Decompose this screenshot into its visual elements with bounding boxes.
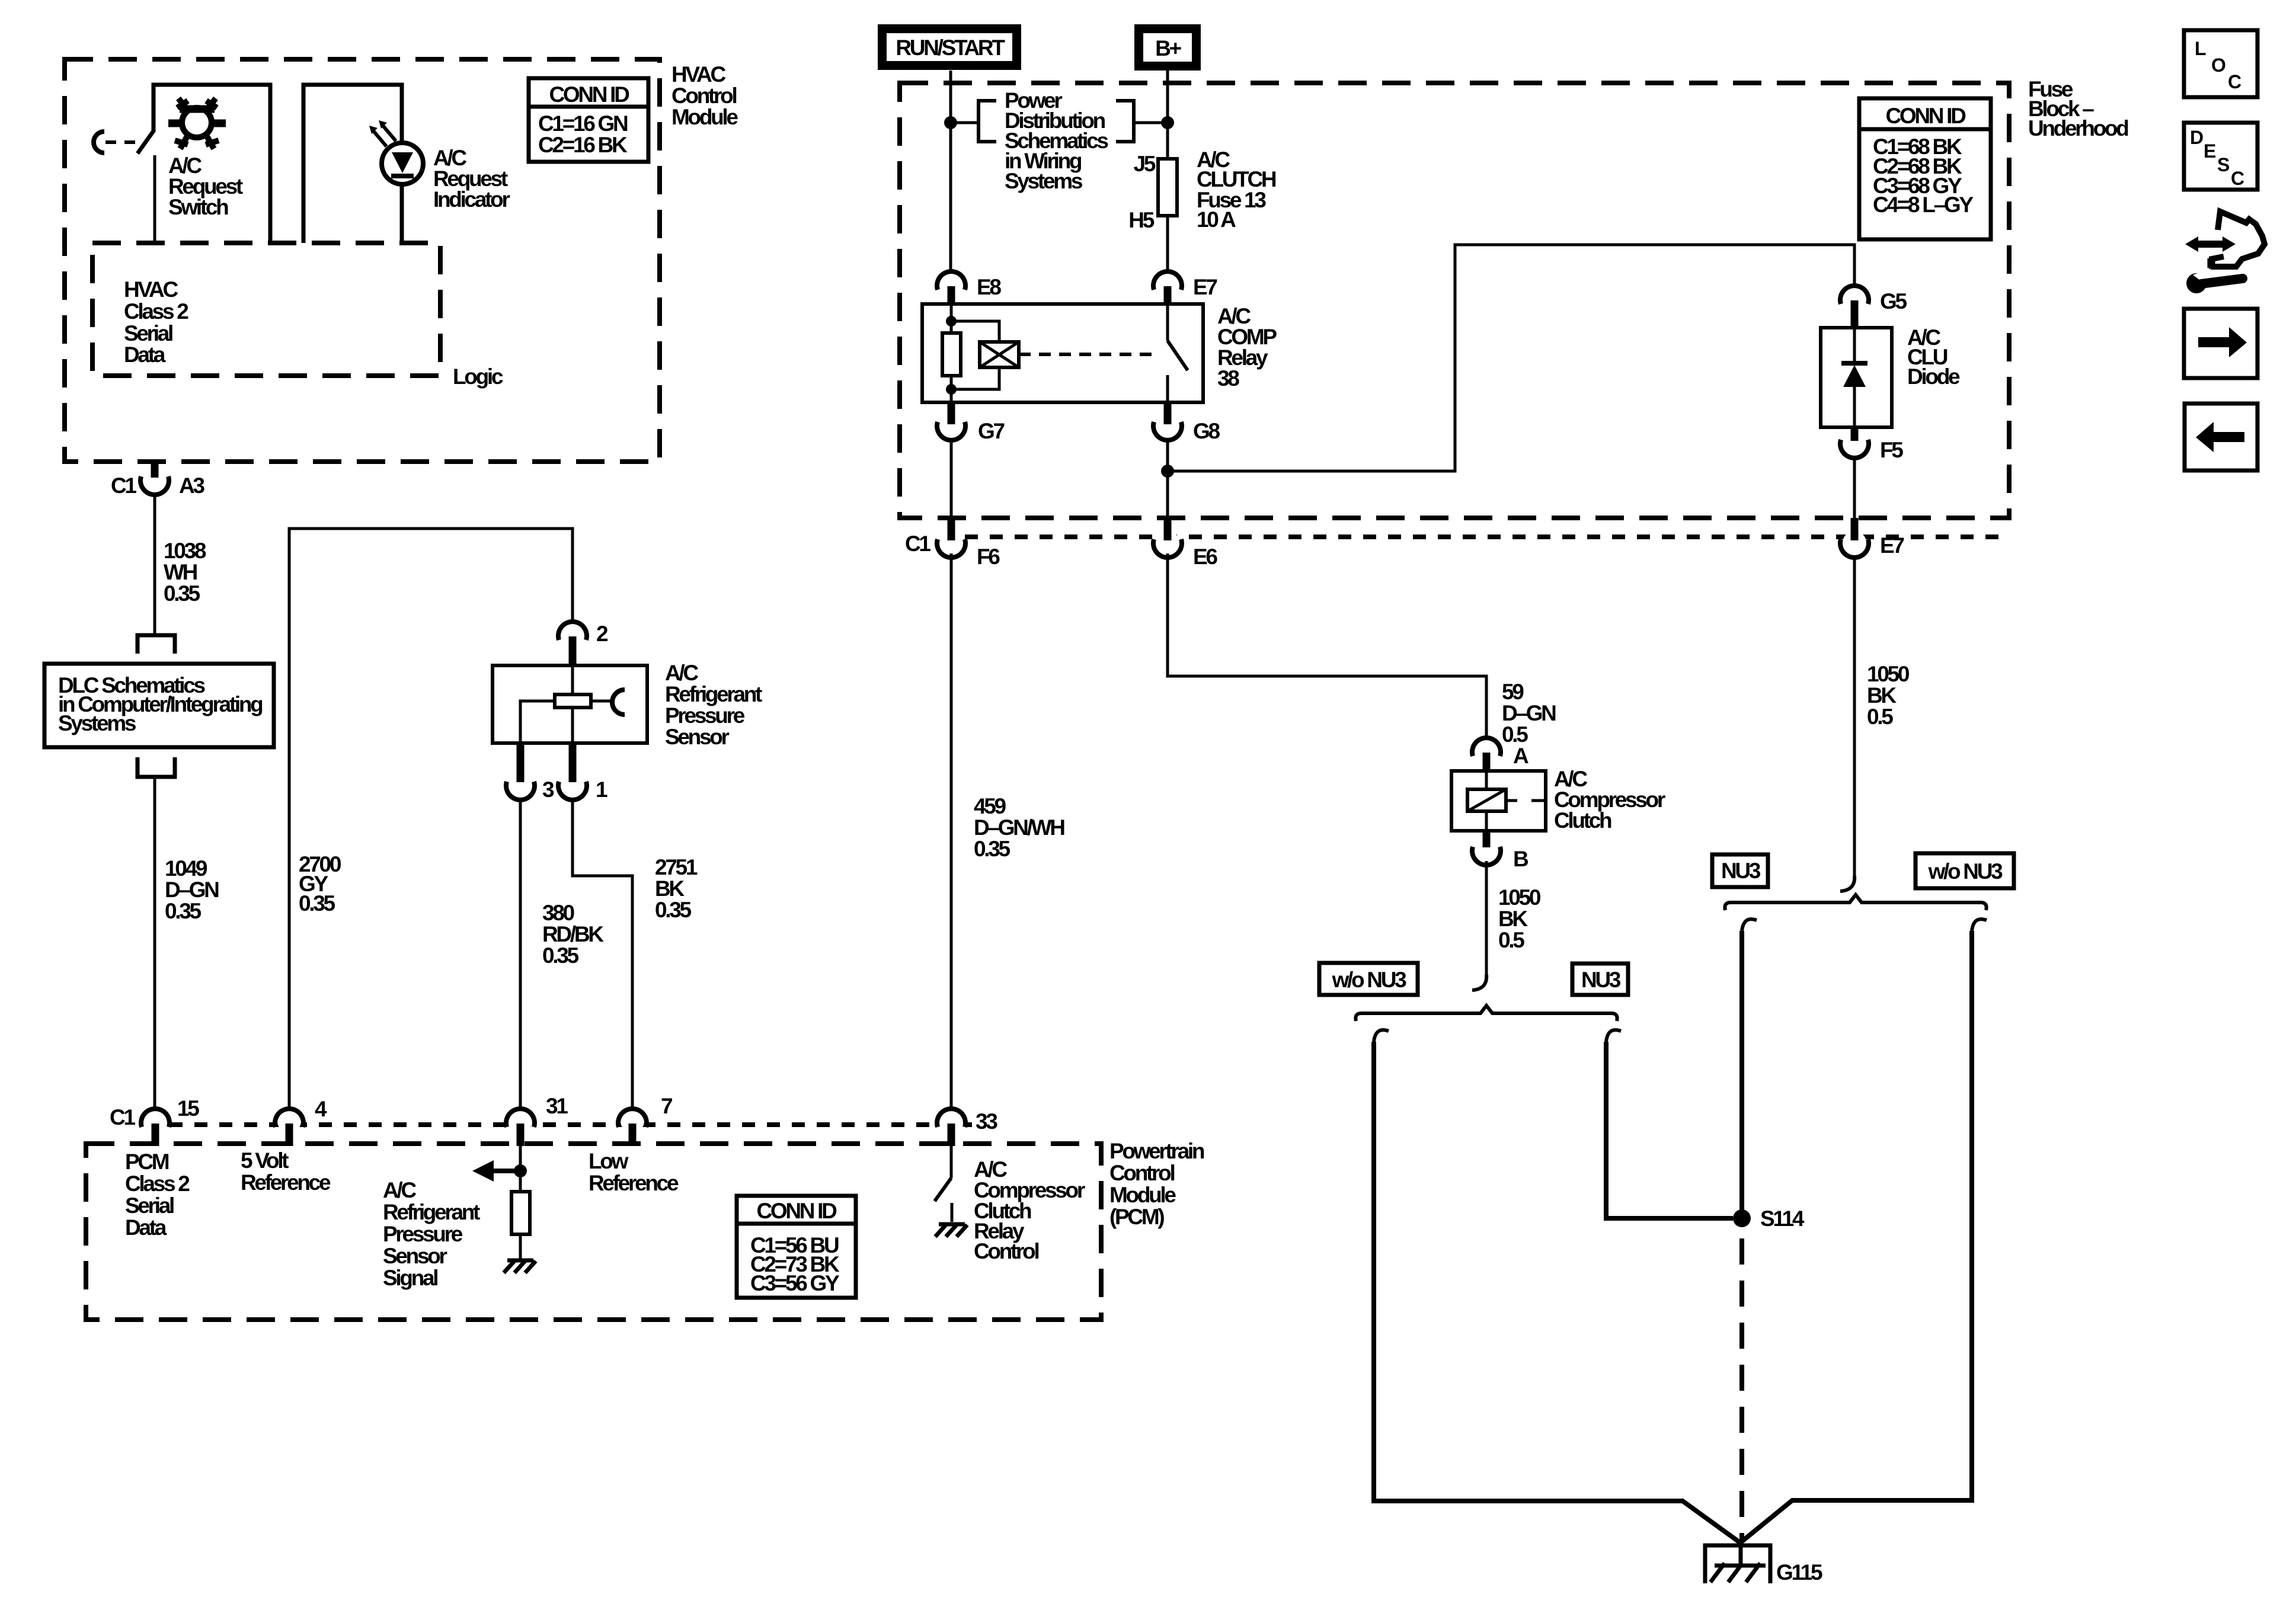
svg-text:0.35: 0.35: [299, 891, 335, 916]
connector pin 4: [277, 1109, 301, 1133]
svg-text:C1: C1: [905, 532, 930, 556]
switch actuator dashed wire: [105, 140, 136, 144]
dotted connector row C1 (PCM): [170, 1122, 972, 1127]
svg-text:1038: 1038: [164, 539, 206, 563]
svg-text:380: 380: [542, 901, 575, 925]
diode symbol: [1853, 328, 1856, 427]
splice S114: [1733, 1209, 1751, 1227]
svg-text:Class 2: Class 2: [125, 1172, 190, 1196]
svg-text:Powertrain: Powertrain: [1109, 1139, 1204, 1163]
svg-text:G115: G115: [1776, 1560, 1822, 1585]
connector pin 2 (sensor): [558, 622, 587, 640]
power feed box RUN/START: [878, 24, 1021, 70]
module box: Powertrain Control Module (PCM): [86, 1144, 1101, 1320]
svg-text:A/C: A/C: [665, 661, 698, 685]
wire to power distribution bracket: [951, 121, 1168, 124]
svg-text:w/o NU3: w/o NU3: [1928, 859, 2003, 884]
bracket into DLC: [137, 635, 175, 654]
svg-text:RUN/START: RUN/START: [896, 36, 1005, 60]
svg-text:E: E: [2204, 140, 2216, 162]
svg-text:0.5: 0.5: [1498, 928, 1524, 952]
svg-text:0.35: 0.35: [974, 837, 1011, 861]
power feed box B+: [1134, 24, 1201, 71]
module box: HVAC Control Module: [65, 59, 660, 462]
svg-text:Switch: Switch: [168, 195, 228, 219]
fuse A/C CLUTCH Fuse 13: [1158, 159, 1177, 216]
svg-text:1: 1: [596, 777, 607, 802]
bracket below DLC: [137, 757, 175, 777]
svg-text:S: S: [2217, 154, 2230, 175]
svg-text:E7: E7: [1193, 275, 1217, 299]
junction dot: [946, 316, 957, 327]
connector G5: [1840, 286, 1869, 304]
svg-text:D: D: [2190, 127, 2203, 148]
relay switch: [1166, 305, 1169, 402]
svg-text:Module: Module: [671, 105, 738, 129]
svg-text:A3: A3: [179, 473, 204, 498]
svg-text:C2=16 BK: C2=16 BK: [538, 133, 628, 157]
option box: w/o NU3 (left): [1319, 963, 1418, 995]
snowflake icon: [168, 98, 226, 149]
svg-text:0.35: 0.35: [165, 899, 202, 923]
svg-text:CONN ID: CONN ID: [1885, 104, 1966, 128]
hook right branch: [1606, 1030, 1621, 1042]
svg-text:0.5: 0.5: [1867, 705, 1893, 729]
relay coil (X box): [980, 342, 1019, 367]
wire end hook (E7 wire): [1840, 876, 1854, 891]
svg-text:C: C: [2231, 168, 2244, 189]
svg-text:Underhood: Underhood: [2028, 116, 2128, 140]
svg-text:WH: WH: [164, 560, 197, 584]
svg-text:HVAC: HVAC: [124, 277, 178, 302]
pin 33 internal switch: [950, 1146, 953, 1178]
clutch coil symbol: [1486, 771, 1546, 831]
svg-text:Module: Module: [1109, 1183, 1176, 1207]
svg-text:Diode: Diode: [1907, 364, 1960, 389]
connector B: [1483, 831, 1491, 847]
svg-text:2: 2: [596, 622, 608, 646]
svg-text:B: B: [1513, 847, 1528, 871]
svg-text:D–GN: D–GN: [1502, 701, 1556, 725]
option box: w/o NU3 (right): [1916, 853, 2014, 888]
svg-text:2751: 2751: [655, 855, 698, 879]
svg-text:NU3: NU3: [1581, 968, 1621, 992]
ground G115: [1705, 1545, 1770, 1583]
svg-text:C: C: [2228, 71, 2241, 92]
svg-text:1050: 1050: [1498, 885, 1541, 910]
svg-text:Low: Low: [589, 1149, 629, 1173]
svg-text:w/o NU3: w/o NU3: [1332, 968, 1407, 992]
svg-text:H5: H5: [1128, 208, 1154, 232]
svg-text:F6: F6: [977, 545, 1000, 569]
relay coil wires: [951, 305, 999, 402]
svg-text:C3=56 GY: C3=56 GY: [750, 1271, 840, 1295]
svg-text:Serial: Serial: [124, 321, 172, 345]
hook right branch (w/o NU3): [1972, 919, 1987, 931]
junction dot: [1161, 465, 1174, 478]
pin 31 internal wire: [519, 1146, 522, 1259]
internal ground (pin 31): [507, 1259, 533, 1263]
svg-text:Class 2: Class 2: [124, 299, 188, 324]
svg-text:C1=16 GN: C1=16 GN: [538, 111, 628, 136]
svg-text:31: 31: [546, 1094, 568, 1118]
svg-text:459: 459: [974, 794, 1006, 818]
logic box (HVAC Class 2 Serial Data): [92, 243, 440, 376]
svg-text:HVAC: HVAC: [671, 62, 725, 87]
brace (right option split): [1725, 895, 1986, 910]
wire 380 (pin3 to PCM 31): [519, 801, 522, 1108]
wire 459 (F6 to PCM 33): [950, 553, 953, 1108]
svg-text:Data: Data: [124, 343, 166, 367]
option box: NU3 (middle): [1572, 964, 1628, 995]
connector pin 31: [509, 1109, 532, 1133]
svg-text:PCM: PCM: [125, 1150, 169, 1174]
bracket left (power distribution): [978, 101, 996, 142]
svg-text:NU3: NU3: [1721, 859, 1761, 883]
junction dot: [944, 116, 957, 129]
wire 59 (E6 to compressor clutch): [1168, 553, 1486, 737]
internal ground (pin 33): [939, 1222, 965, 1227]
svg-text:Logic: Logic: [453, 364, 503, 389]
connector pin 15: [143, 1109, 167, 1133]
connector G8: [1164, 402, 1172, 424]
svg-text:Reference: Reference: [589, 1171, 679, 1195]
connector A (compressor clutch): [1472, 738, 1501, 756]
hook left branch: [1374, 1030, 1389, 1042]
svg-text:Indicator: Indicator: [433, 187, 510, 212]
svg-text:G5: G5: [1880, 289, 1907, 313]
junction dot: [946, 384, 957, 395]
signal arrow: [493, 1169, 520, 1173]
wire below switch: [154, 155, 156, 243]
dotted connector row C1 (fuse block): [965, 534, 2009, 539]
svg-text:CONN ID: CONN ID: [756, 1199, 837, 1223]
svg-text:Clutch: Clutch: [1554, 808, 1611, 833]
internal resistor: [511, 1192, 530, 1234]
wire end hook: [1472, 975, 1486, 990]
relay resistor: [942, 333, 961, 376]
icon: right arrow box: [2184, 309, 2257, 378]
wire F5 to E7: [1853, 459, 1856, 519]
svg-text:Refrigerant: Refrigerant: [383, 1200, 480, 1224]
svg-text:BK: BK: [655, 876, 685, 901]
box: A/C CLU Diode: [1821, 328, 1892, 427]
svg-text:7: 7: [661, 1094, 672, 1118]
hook left branch (NU3): [1742, 919, 1757, 931]
svg-text:D–GN/WH: D–GN/WH: [974, 815, 1064, 840]
svg-text:15: 15: [177, 1096, 199, 1121]
icon: vehicle data (outline, arrow, wrench): [2197, 241, 2224, 248]
wire 1038: [154, 495, 156, 635]
box: A/C Request Indicator: [303, 85, 402, 243]
svg-text:0.35: 0.35: [164, 581, 200, 606]
svg-text:33: 33: [976, 1109, 997, 1134]
svg-text:O: O: [2211, 55, 2225, 76]
svg-text:Pressure: Pressure: [665, 703, 745, 728]
wire 2700 (sensor pin2 to PCM pin4): [289, 529, 573, 1108]
svg-text:Data: Data: [125, 1215, 167, 1240]
svg-text:Signal: Signal: [383, 1266, 437, 1290]
module box: Fuse Block Underhood: [900, 83, 2009, 518]
pressure port symbol: [612, 690, 625, 715]
svg-text:Sensor: Sensor: [383, 1244, 447, 1268]
svg-text:A/C: A/C: [383, 1178, 416, 1202]
svg-text:0.35: 0.35: [542, 943, 579, 968]
svg-text:E8: E8: [977, 275, 1001, 299]
svg-text:S114: S114: [1760, 1206, 1805, 1231]
svg-text:3: 3: [542, 777, 554, 802]
box: A/C Compressor Clutch: [1451, 771, 1546, 831]
icon: left arrow box: [2185, 404, 2257, 470]
svg-text:5 Volt: 5 Volt: [241, 1148, 289, 1173]
switch blade (A/C request switch): [137, 131, 154, 153]
svg-text:1050: 1050: [1867, 662, 1910, 686]
bracket right (power distribution): [1116, 101, 1134, 142]
connector pin 33: [939, 1109, 963, 1133]
svg-text:Control: Control: [1109, 1161, 1174, 1185]
sensor internals: [520, 665, 613, 743]
relay actuator dashed line: [1019, 353, 1157, 356]
brace (left option split): [1355, 1006, 1617, 1021]
wire relay to diode (via top): [1168, 245, 1854, 471]
svg-text:59: 59: [1502, 680, 1524, 704]
box: CONN ID (PCM): [737, 1196, 856, 1298]
wire NU3 branch down to S114: [1739, 931, 1744, 1209]
connector E6: [1156, 531, 1179, 555]
svg-text:C1: C1: [110, 1105, 135, 1129]
svg-text:10 A: 10 A: [1197, 207, 1236, 232]
connector E7 (relay): [1153, 271, 1182, 290]
box: DLC Schematics: [44, 664, 274, 747]
wire 1049: [154, 777, 156, 1108]
svg-text:J5: J5: [1133, 152, 1155, 176]
svg-text:Serial: Serial: [125, 1193, 174, 1218]
svg-text:C4=8 L–GY: C4=8 L–GY: [1873, 193, 1974, 217]
box: A/C Refrigerant Pressure Sensor: [493, 665, 647, 743]
option box: NU3 (right): [1712, 854, 1768, 887]
svg-text:(PCM): (PCM): [1109, 1205, 1164, 1229]
svg-text:Refrigerant: Refrigerant: [665, 682, 762, 706]
svg-text:Control: Control: [671, 84, 736, 108]
connector pin 7: [621, 1109, 644, 1133]
wire G8 to E6: [1166, 441, 1169, 519]
svg-text:D–GN: D–GN: [165, 878, 219, 902]
svg-text:CONN ID: CONN ID: [549, 82, 629, 107]
connector F6: [939, 531, 963, 555]
svg-text:B+: B+: [1155, 36, 1181, 60]
LED arrows: [373, 126, 396, 146]
wire B+ down: [1166, 71, 1169, 271]
wire left branch (w/o NU3) to ground: [1374, 1042, 1741, 1543]
wire 2751 (pin1 to PCM 7): [573, 801, 632, 1108]
svg-text:Systems: Systems: [58, 711, 136, 735]
resistor (sensor element): [555, 694, 591, 708]
svg-text:E7: E7: [1880, 533, 1904, 558]
connector G7: [948, 402, 955, 424]
svg-text:Reference: Reference: [241, 1170, 331, 1195]
svg-text:G8: G8: [1193, 419, 1220, 443]
svg-text:38: 38: [1217, 366, 1239, 391]
svg-text:Pressure: Pressure: [383, 1222, 463, 1246]
wire w/o NU3 branch down to ground: [1741, 931, 1972, 1542]
dashed wire S114 to ground: [1739, 1238, 1744, 1542]
connector E8: [937, 271, 965, 290]
wire 1050 (B down to brace): [1485, 861, 1488, 975]
svg-text:RD/BK: RD/BK: [542, 922, 604, 946]
svg-text:1049: 1049: [165, 856, 207, 881]
connector E7 (harness): [1843, 531, 1866, 555]
connector C1 A3: [151, 462, 159, 478]
svg-text:E6: E6: [1193, 545, 1217, 569]
svg-text:A: A: [1513, 744, 1528, 768]
icon: LOC box: [2184, 30, 2257, 97]
svg-text:G7: G7: [978, 419, 1004, 443]
relay box: A/C COMP Relay 38: [922, 304, 1203, 402]
box: A/C Request Switch: [154, 85, 270, 243]
junction dot: [514, 1164, 527, 1177]
box: CONN ID (fuse block): [1859, 98, 1991, 239]
svg-text:C1: C1: [111, 473, 136, 498]
LED A/C Request Indicator: [382, 143, 423, 184]
connector pin 3: [517, 743, 525, 782]
wire 1050 (E7 down to brace): [1853, 556, 1856, 876]
junction dot: [1161, 116, 1174, 129]
wire RUN/START down: [949, 71, 952, 271]
connector pin 1: [569, 743, 577, 782]
icon: DESC box: [2184, 123, 2257, 190]
wire right branch (NU3) to S114: [1606, 1042, 1733, 1218]
box: CONN ID (HVAC): [529, 78, 648, 162]
svg-text:BK: BK: [1867, 683, 1897, 708]
svg-text:Systems: Systems: [1005, 169, 1083, 193]
wire G7 to F6: [950, 441, 953, 519]
svg-text:BK: BK: [1498, 907, 1528, 931]
connector F5: [1851, 427, 1859, 441]
svg-text:Control: Control: [974, 1239, 1038, 1263]
svg-text:Sensor: Sensor: [665, 725, 730, 749]
svg-text:F5: F5: [1880, 438, 1903, 462]
switch actuator hook: [94, 132, 104, 153]
svg-text:L: L: [2195, 38, 2206, 59]
svg-text:0.5: 0.5: [1502, 722, 1528, 747]
svg-text:0.35: 0.35: [655, 898, 692, 922]
